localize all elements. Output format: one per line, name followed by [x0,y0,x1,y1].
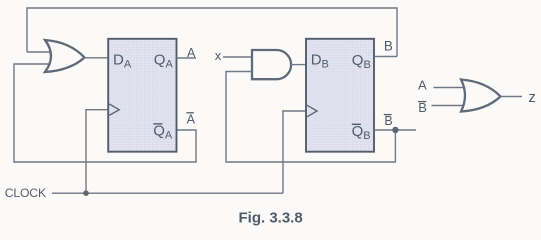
svg-text:Fig. 3.3.8: Fig. 3.3.8 [239,209,303,226]
svg-text:B: B [384,114,392,128]
flip-flop FF2 (D_B) [306,39,374,152]
wire: clock to FF2 [283,111,306,193]
wire: OR2 output z [500,96,522,98]
svg-text:CLOCK: CLOCK [5,186,46,200]
wire: AND output to DB [291,64,306,66]
wire: top feedback B line [27,8,397,57]
svg-text:B: B [384,39,393,54]
wire: B̄ input to OR2 [432,105,466,107]
wire: A input to OR2 [434,87,466,89]
wire: QA output stub [177,57,197,59]
or-gate G3 [461,80,501,112]
wire: OR1 input 1 (from top line) [27,51,53,53]
wire: clock line [52,192,283,194]
svg-text:A: A [187,46,196,60]
wire: QB output to top line [374,56,397,58]
flip-flop FF1 (D_A) [108,39,176,152]
and-gate G2 [252,50,291,79]
junction clock node [83,190,89,196]
clock triangle FF1 [109,104,119,115]
junction node B̄ [392,127,398,133]
wire: OR1 output to DA [84,57,108,59]
svg-text:x: x [215,48,222,63]
or-gate G1 [45,40,85,72]
wire: AND input 2 feedback from Q̄B [226,72,395,163]
svg-text:A: A [418,77,427,92]
svg-text:A: A [187,113,196,127]
wire: x input to AND [223,56,252,58]
svg-text:z: z [528,89,536,106]
wire: Q̄B output stub [374,129,416,131]
wire: clock to FF1 [86,110,108,194]
wire: OR1 input 2 + left feedback from Q̄A [14,64,196,162]
clock triangle FF2 [307,105,317,117]
